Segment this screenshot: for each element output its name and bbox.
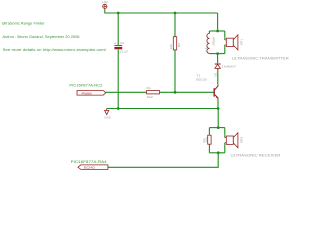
wire +9V rail	[105, 10, 218, 13]
svg-text:GND: GND	[104, 116, 111, 120]
svg-text:UltraSonic Range Finder: UltraSonic Range Finder	[2, 22, 46, 26]
wire SP2 pin1 lead	[224, 128, 226, 138]
svg-text:22 µF: 22 µF	[120, 50, 128, 54]
wire R3 top lead	[208, 128, 210, 136]
svg-text:BD135: BD135	[196, 78, 207, 82]
wire emitter to gnd	[217, 100, 219, 109]
wire diode to collector	[217, 69, 219, 84]
wire RX top bar	[209, 127, 224, 129]
speaker SP1 ultrasonic transmitter	[224, 35, 243, 50]
resistor R2	[169, 37, 181, 50]
wire transmitter drop	[217, 13, 219, 31]
wire L1 top lead	[208, 31, 210, 33]
node junction emitter-gnd	[217, 107, 220, 110]
wire base net right	[160, 91, 214, 93]
wire RX bottom drop	[108, 153, 218, 168]
svg-text:R2: R2	[177, 43, 181, 48]
wire TX to diode	[217, 54, 219, 64]
svg-text:2k2: 2k2	[147, 95, 154, 99]
svg-text:Author : Bruno Gavand, Septem: Author : Bruno Gavand, September 20 2006	[3, 35, 80, 39]
wire receiver drop	[217, 109, 219, 128]
svg-text:PIC16F877A-RC2: PIC16F877A-RC2	[69, 83, 102, 87]
node junction TX top	[216, 30, 219, 33]
svg-text:ULTRASONIC TRANSMITTER: ULTRASONIC TRANSMITTER	[232, 57, 290, 61]
wire TX bottom bar	[209, 53, 224, 55]
net flag PIC16F877A-RC2	[69, 83, 106, 95]
svg-text:10k: 10k	[205, 136, 209, 143]
svg-text:C3: C3	[120, 41, 125, 45]
resistor R3	[202, 135, 211, 144]
diode D1 1N4007	[213, 64, 236, 77]
resistor R1	[147, 86, 160, 99]
wire SP1 pin1 lead	[224, 31, 226, 40]
svg-text:L1: L1	[204, 47, 208, 52]
wire C3 branch upper	[117, 13, 119, 45]
svg-text:SP2: SP2	[239, 136, 243, 143]
svg-text:D1: D1	[213, 72, 217, 77]
node junction TX bottom	[216, 52, 219, 55]
node junction rail-C3	[117, 12, 120, 15]
svg-text:ECHO: ECHO	[84, 166, 96, 170]
ground wire	[107, 108, 218, 110]
svg-text:1N4007: 1N4007	[222, 65, 237, 69]
wire R3 bottom lead	[208, 144, 210, 153]
capacitor C3	[114, 41, 128, 54]
node junction R2-base	[174, 91, 177, 94]
speaker SP2 ultrasonic receiver	[224, 133, 243, 148]
node junction RX top	[217, 126, 220, 129]
supply +9V symbol	[102, 1, 109, 11]
net flag PIC16F877A-RA4	[71, 160, 108, 169]
svg-text:330µH: 330µH	[212, 37, 216, 47]
svg-text:SP1: SP1	[239, 38, 243, 45]
transistor T1 BD135	[196, 74, 218, 100]
wire TX top bar	[209, 30, 224, 32]
ground symbol GND	[104, 109, 111, 120]
wire RX bottom bar	[209, 152, 224, 154]
svg-text:PIC16F877A-RA4: PIC16F877A-RA4	[71, 160, 107, 164]
svg-text:ULTRASONIC RECEIVER: ULTRASONIC RECEIVER	[231, 154, 282, 158]
wire SP1 pin2 lead	[224, 45, 226, 54]
svg-text:PWM: PWM	[82, 91, 93, 95]
node junction C3-gnd	[117, 107, 120, 110]
wire R2 branch lower	[174, 50, 176, 92]
wire R2 branch upper	[174, 13, 176, 37]
wire base net left	[106, 91, 146, 93]
wire SP2 pin2 lead	[224, 143, 226, 153]
wire C3 branch lower	[117, 50, 119, 109]
svg-text:R1: R1	[147, 86, 152, 90]
node junction RX bottom	[217, 151, 220, 154]
svg-text:10k: 10k	[169, 43, 173, 50]
wire L1 bottom lead	[208, 52, 210, 54]
node junction rail-R2	[174, 12, 177, 15]
inductor L1	[204, 33, 216, 53]
svg-text:See more details on http://www: See more details on http://www.micro-exa…	[3, 48, 107, 52]
